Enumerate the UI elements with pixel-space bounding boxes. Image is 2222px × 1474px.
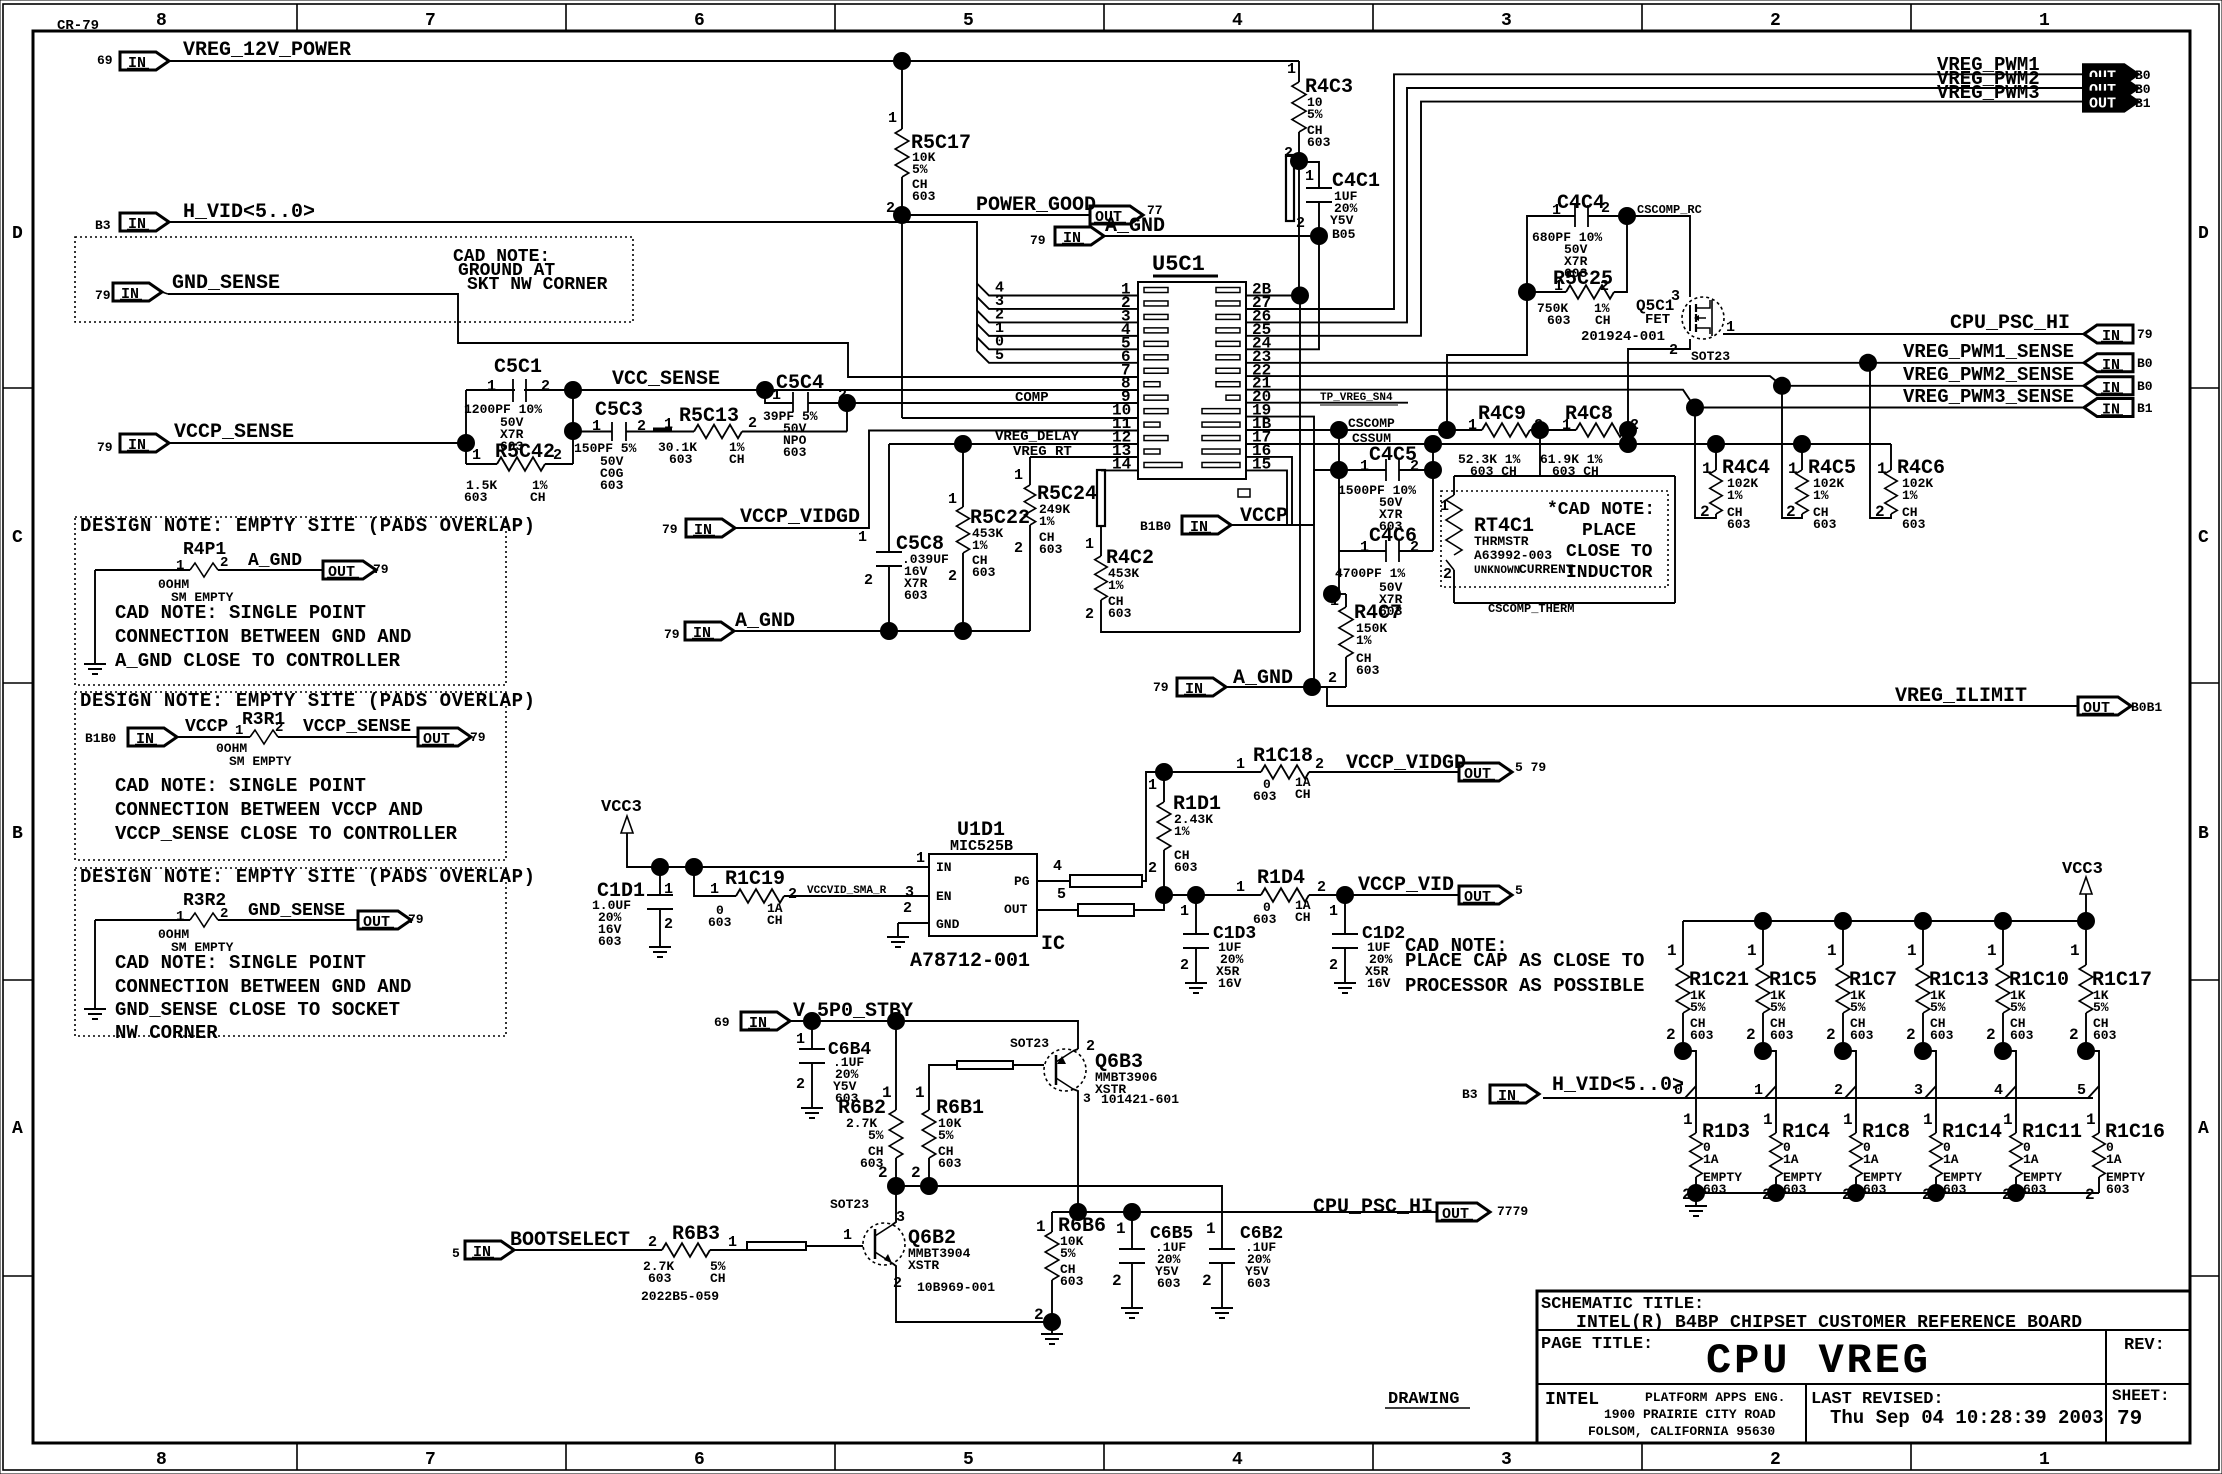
junction dot PWM1 sense	[1859, 354, 1877, 372]
ground C1D1	[649, 946, 671, 948]
net H_VID IN flag	[120, 213, 169, 231]
svg-text:1: 1	[487, 378, 496, 395]
svg-text:5: 5	[963, 11, 974, 31]
wire CPU_PSC_HI bottom row	[1052, 1211, 1437, 1213]
svg-text:CH: CH	[710, 1271, 726, 1286]
junction dot C1D3	[1187, 886, 1205, 904]
ground C1D3	[1185, 982, 1207, 984]
junction dot R1C10 bottom	[1994, 1042, 2012, 1060]
svg-text:1: 1	[1236, 879, 1245, 896]
svg-text:1: 1	[1305, 168, 1314, 185]
svg-text:7: 7	[425, 1450, 436, 1470]
wire C5C1 left leg	[465, 390, 467, 464]
svg-text:R1C11: R1C11	[2022, 1121, 2082, 1144]
wire A_GND mid	[734, 630, 1030, 632]
ic U5C1 no-connect stub	[1238, 489, 1250, 497]
svg-text:H_VID<5..0>: H_VID<5..0>	[183, 201, 315, 224]
resistor R4C5	[1801, 444, 1803, 470]
resistor R4C3	[1298, 61, 1300, 82]
svg-text:7779: 7779	[1497, 1204, 1528, 1219]
svg-text:2: 2	[1317, 879, 1326, 896]
svg-text:603: 603	[1253, 912, 1277, 927]
svg-text:C5C1: C5C1	[494, 356, 542, 379]
resistor R6B2	[895, 1021, 897, 1110]
resistor R4C6	[1890, 444, 1892, 470]
svg-text:1: 1	[1907, 942, 1917, 960]
base bar Q6B3	[957, 1061, 1013, 1069]
svg-text:C4C4: C4C4	[1557, 192, 1605, 215]
svg-text:CPU VREG: CPU VREG	[1706, 1337, 1928, 1385]
svg-text:1: 1	[843, 1227, 852, 1244]
wire C4C5 left leg down	[1338, 470, 1340, 551]
svg-text:0: 0	[1674, 1082, 1683, 1099]
ground U1D1	[887, 936, 909, 938]
svg-text:B0: B0	[2135, 82, 2151, 97]
junction dot C4C5 right	[1424, 461, 1442, 479]
resistor R1C4	[1770, 1133, 1782, 1177]
svg-text:79: 79	[2117, 1408, 2142, 1431]
svg-text:IN: IN	[2102, 402, 2120, 419]
bus tap 1	[1763, 1051, 1776, 1133]
svg-text:1: 1	[1287, 61, 1296, 78]
svg-text:2: 2	[1328, 670, 1337, 687]
wire R4C3 dot to pin28 dot	[1298, 161, 1300, 296]
resistor R1C17	[2085, 921, 2087, 965]
svg-text:603: 603	[972, 565, 996, 580]
svg-text:CONNECTION BETWEEN GND AND: CONNECTION BETWEEN GND AND	[115, 976, 411, 998]
junction dot PWM2 sense	[1773, 377, 1791, 395]
svg-text:2: 2	[1770, 11, 1781, 31]
wire VCCP_VIDGD to pin11	[735, 431, 1138, 529]
wire V_5P0_STBY	[790, 1021, 1078, 1049]
svg-text:603: 603	[1783, 1182, 1807, 1197]
svg-text:2: 2	[1875, 503, 1885, 521]
junction dot VCC_SENSE left	[564, 381, 582, 399]
svg-text:1: 1	[1702, 460, 1712, 478]
resistor R1C10	[2002, 921, 2004, 965]
svg-text:PROCESSOR AS POSSIBLE: PROCESSOR AS POSSIBLE	[1405, 975, 1644, 997]
svg-text:VCC3: VCC3	[2062, 860, 2103, 879]
svg-text:PLACE: PLACE	[1582, 521, 1636, 541]
svg-text:VREG_PWM2_SENSE: VREG_PWM2_SENSE	[1903, 364, 2074, 386]
net VREG_PWM1_SENSE IN flag	[2084, 354, 2133, 372]
svg-text:OUT: OUT	[2089, 96, 2116, 113]
svg-text:603: 603	[708, 915, 732, 930]
svg-text:2: 2	[788, 886, 797, 903]
svg-text:1A: 1A	[2023, 1152, 2039, 1167]
svg-text:1%: 1%	[1108, 578, 1124, 593]
svg-text:1: 1	[1329, 903, 1338, 920]
junction dot R1C11 bottom	[2007, 1184, 2025, 1202]
resistor R5C25	[1527, 291, 1566, 293]
resistor R6B3	[662, 1243, 710, 1257]
svg-text:INTEL(R) B4BP CHIPSET CUSTOMER: INTEL(R) B4BP CHIPSET CUSTOMER REFERENCE…	[1576, 1313, 2082, 1333]
svg-text:A_GND: A_GND	[1105, 215, 1165, 238]
svg-text:OUT: OUT	[1442, 1206, 1469, 1223]
resistor R5C22	[962, 444, 964, 507]
net VREG_PWM2 OUT flag	[2084, 79, 2137, 97]
svg-text:5: 5	[1515, 883, 1523, 898]
border right band dividers	[2190, 387, 2219, 389]
svg-text:3: 3	[896, 1209, 905, 1226]
svg-text:603: 603	[1174, 860, 1198, 875]
svg-text:2: 2	[1601, 200, 1610, 217]
resistor R6B6	[1051, 1212, 1053, 1232]
svg-text:VCCP_SENSE CLOSE TO CONTROLLER: VCCP_SENSE CLOSE TO CONTROLLER	[115, 823, 458, 845]
svg-text:1: 1	[472, 447, 481, 464]
svg-text:VCCP_SENSE: VCCP_SENSE	[303, 717, 411, 737]
svg-text:79: 79	[664, 627, 680, 642]
title block divider line 2	[1537, 1383, 2190, 1385]
resistor R1C7	[1842, 921, 1844, 965]
net A_GND top IN flag	[1055, 227, 1104, 245]
svg-text:603: 603	[648, 1271, 672, 1286]
svg-text:IN: IN	[1063, 230, 1081, 247]
transistor Q6B3	[1044, 1049, 1086, 1091]
wire H_VID bus to ripper	[169, 222, 977, 351]
svg-text:603: 603	[938, 1156, 962, 1171]
svg-text:1: 1	[1148, 777, 1157, 794]
resistor R1C21	[1682, 921, 1684, 965]
svg-text:1: 1	[176, 909, 184, 925]
svg-text:VREG_12V_POWER: VREG_12V_POWER	[183, 39, 351, 62]
testpoint bar pin14	[1097, 470, 1105, 526]
net VCCP_VID OUT flag	[1459, 886, 1512, 904]
svg-text:16V: 16V	[1367, 976, 1391, 991]
svg-text:PG: PG	[1014, 874, 1030, 889]
junction dot CSCOMP R4C9	[1438, 421, 1456, 439]
junction dot pin28 A_GND	[1291, 287, 1309, 305]
capacitor C5C1	[513, 379, 526, 402]
svg-text:OUT: OUT	[1004, 902, 1028, 917]
svg-text:2: 2	[1746, 1026, 1756, 1044]
svg-text:OUT: OUT	[2083, 700, 2110, 717]
svg-text:B05: B05	[1332, 227, 1356, 242]
svg-text:1: 1	[664, 881, 673, 898]
resistor R4C7	[1332, 593, 1346, 595]
net VCCP_SENSE OUT flag box2	[418, 728, 471, 746]
svg-text:7: 7	[425, 11, 436, 31]
svg-text:603: 603	[1703, 1182, 1727, 1197]
svg-text:1: 1	[948, 491, 957, 508]
svg-text:2: 2	[1296, 215, 1305, 232]
junction dot VCC3 rail R1C7	[1834, 912, 1852, 930]
junction dot POWER_GOOD	[893, 206, 911, 224]
wire PG to R1C18 row	[1142, 772, 1164, 881]
bus ripper taps to pins 1-6	[977, 284, 1138, 296]
wire pin28 stub	[1246, 295, 1300, 297]
ground C1D2	[1334, 982, 1356, 984]
wire VCCP	[1231, 524, 1314, 526]
resistor R6B1	[929, 1065, 957, 1110]
svg-text:1: 1	[2070, 942, 2080, 960]
svg-text:NW CORNER: NW CORNER	[115, 1022, 218, 1044]
resistor R1D1	[1163, 772, 1165, 802]
border left band dividers	[3, 387, 33, 389]
svg-text:Y5V: Y5V	[1330, 213, 1354, 228]
svg-text:1: 1	[664, 416, 673, 433]
svg-text:5%: 5%	[1850, 1000, 1866, 1015]
bus tap 2	[1843, 1051, 1856, 1133]
svg-text:1%: 1%	[1727, 488, 1743, 503]
junction dot CSSUM C4C5	[1424, 435, 1442, 453]
bus tap 0	[1683, 1051, 1696, 1133]
wire VREG_RT row pin13	[1030, 456, 1138, 458]
ic U1D1 body	[929, 854, 1037, 936]
svg-text:5%: 5%	[938, 1128, 954, 1143]
svg-text:603: 603	[2023, 1182, 2047, 1197]
wire VCC3 rail	[2085, 909, 2087, 921]
svg-text:1: 1	[1360, 458, 1369, 475]
svg-text:4: 4	[1232, 11, 1243, 31]
svg-text:VCCP_VID: VCCP_VID	[1358, 874, 1454, 897]
svg-text:CONNECTION BETWEEN VCCP AND: CONNECTION BETWEEN VCCP AND	[115, 799, 423, 821]
svg-text:R1D4: R1D4	[1257, 867, 1305, 890]
wire C4C6 down to R4C7	[1338, 551, 1340, 594]
svg-text:CLOSE TO: CLOSE TO	[1566, 542, 1653, 562]
svg-text:OUT: OUT	[423, 731, 450, 748]
svg-text:B1B0: B1B0	[85, 731, 116, 746]
svg-text:C5C4: C5C4	[776, 372, 824, 395]
svg-text:INDUCTOR: INDUCTOR	[1566, 563, 1653, 583]
wire C5C3 vertical	[572, 390, 574, 464]
capacitor C1D1	[659, 867, 661, 895]
junction dot A_GND C5C8	[880, 622, 898, 640]
transistor Q6B2	[863, 1223, 905, 1265]
svg-text:2: 2	[796, 1076, 805, 1093]
svg-text:2: 2	[911, 1164, 921, 1182]
svg-text:1: 1	[1923, 1111, 1933, 1129]
wire A_GND net vertical x1300	[1299, 296, 1301, 633]
wire CPU_PSC_HI from FET	[1723, 333, 2084, 335]
wire VREG_12V_POWER	[169, 60, 1299, 62]
svg-text:603: 603	[2093, 1028, 2117, 1043]
svg-text:OUT: OUT	[363, 914, 390, 931]
svg-text:IN: IN	[1498, 1088, 1516, 1105]
junction dot CSCOMP mid	[1531, 421, 1549, 439]
svg-text:2: 2	[1034, 1306, 1044, 1324]
svg-text:2: 2	[664, 916, 673, 933]
svg-text:MIC525B: MIC525B	[950, 838, 1013, 855]
junction dot R5C25 left	[1518, 283, 1536, 301]
junction dot 12V at R5C17	[893, 52, 911, 70]
svg-text:B: B	[12, 824, 23, 844]
svg-text:2: 2	[637, 418, 646, 435]
svg-text:A78712-001: A78712-001	[910, 950, 1030, 973]
wire VREG_PWM1	[1246, 74, 2084, 309]
wire Q6B3 emitter up	[1073, 1049, 1078, 1051]
svg-text:2: 2	[1148, 860, 1157, 877]
svg-text:5%: 5%	[2010, 1000, 2026, 1015]
svg-text:R1C19: R1C19	[725, 868, 785, 891]
svg-text:OUT: OUT	[328, 564, 355, 581]
bus tap 4	[2003, 1051, 2016, 1133]
svg-text:SOT23: SOT23	[1691, 349, 1730, 364]
junction dot R6B2 bottom	[887, 1177, 905, 1195]
wire box3 ground leg	[94, 920, 96, 1009]
svg-text:B0: B0	[2135, 68, 2151, 83]
svg-text:1: 1	[796, 1031, 805, 1048]
svg-text:R1C18: R1C18	[1253, 745, 1313, 768]
svg-text:1: 1	[1036, 1218, 1046, 1236]
wire R5C25 left to CSCOMP	[1447, 292, 1527, 430]
svg-text:1: 1	[858, 529, 867, 546]
wire bottom rail	[1696, 1192, 2099, 1194]
svg-text:PLACE CAP AS CLOSE TO: PLACE CAP AS CLOSE TO	[1405, 950, 1644, 972]
svg-text:16V: 16V	[1218, 976, 1242, 991]
net VCCP_VIDGD OUT flag	[1459, 763, 1512, 781]
svg-text:5 79: 5 79	[1515, 760, 1546, 775]
title block LAST REVISED divider	[1805, 1384, 1807, 1443]
svg-text:CSCOMP_RC: CSCOMP_RC	[1637, 203, 1702, 217]
wire GND_SENSE to pin7	[162, 292, 168, 294]
svg-text:69: 69	[97, 53, 113, 68]
svg-text:B3: B3	[95, 218, 111, 233]
svg-text:6: 6	[694, 11, 705, 31]
wire CSCOMP to C4C5	[1338, 430, 1340, 470]
svg-text:2: 2	[1834, 1082, 1843, 1099]
junction dot VCC_SENSE right	[756, 381, 774, 399]
svg-text:4: 4	[1053, 858, 1062, 875]
svg-text:A63992-003: A63992-003	[1474, 548, 1552, 563]
title block REV divider	[2105, 1330, 2107, 1443]
resistor R5C13	[694, 425, 742, 439]
svg-text:B1B0: B1B0	[1140, 519, 1171, 534]
junction dot PWM3 sense	[1686, 399, 1704, 417]
svg-text:IN: IN	[128, 216, 146, 233]
svg-text:EN: EN	[936, 889, 952, 904]
svg-text:79: 79	[662, 522, 678, 537]
svg-text:H_VID<5..0>: H_VID<5..0>	[1552, 1074, 1684, 1097]
svg-text:603: 603	[1850, 1028, 1874, 1043]
svg-text:DRAWING: DRAWING	[1388, 1390, 1459, 1409]
svg-text:SCHEMATIC TITLE:: SCHEMATIC TITLE:	[1541, 1295, 1704, 1314]
svg-text:IN: IN	[136, 731, 154, 748]
junction dot A_GND C4C1	[1310, 227, 1328, 245]
svg-text:IN: IN	[749, 1015, 767, 1032]
svg-text:2: 2	[1700, 503, 1710, 521]
svg-text:B: B	[2198, 824, 2209, 844]
svg-text:A_GND: A_GND	[735, 610, 795, 633]
svg-text:1A: 1A	[2106, 1152, 2122, 1167]
svg-text:1%: 1%	[1039, 514, 1055, 529]
ground C6B4	[801, 1107, 823, 1109]
wire pin10 from R5C17	[902, 417, 1138, 419]
wire Q6B3 collector down	[1073, 1089, 1078, 1212]
wire RT4C1 tap	[1539, 430, 1541, 476]
svg-text:2: 2	[1315, 756, 1324, 773]
svg-text:1: 1	[592, 418, 601, 435]
svg-text:C5C3: C5C3	[595, 399, 643, 422]
svg-text:8: 8	[156, 1450, 167, 1470]
svg-text:1: 1	[1987, 942, 1997, 960]
svg-text:603: 603	[600, 478, 624, 493]
junction dot VCCP_VID left	[1155, 886, 1173, 904]
design note box 3	[75, 868, 506, 1036]
svg-text:C: C	[2198, 528, 2209, 548]
ground box3	[84, 1008, 106, 1010]
capacitor C1D3	[1195, 895, 1197, 934]
svg-text:5%: 5%	[912, 162, 928, 177]
svg-text:3: 3	[1501, 1450, 1512, 1470]
svg-text:603: 603	[1770, 1028, 1794, 1043]
ic U5C1 body	[1138, 282, 1246, 479]
svg-text:CR-79: CR-79	[57, 18, 99, 34]
svg-text:603: 603	[1902, 517, 1926, 532]
svg-text:5: 5	[2077, 1082, 2086, 1099]
svg-text:2: 2	[1180, 957, 1189, 974]
svg-text:5: 5	[995, 347, 1004, 364]
svg-text:1: 1	[772, 387, 781, 404]
svg-text:VCCP_VIDGD: VCCP_VIDGD	[740, 506, 860, 529]
wire RT4C1 loop top	[1454, 475, 1675, 477]
net VCCP_SENSE IN flag	[120, 434, 169, 452]
resistor R5C42	[466, 463, 497, 465]
svg-text:SOT23: SOT23	[1010, 1036, 1049, 1051]
svg-text:2: 2	[1443, 566, 1452, 583]
svg-text:R6B3: R6B3	[672, 1223, 720, 1246]
svg-text:IN: IN	[2102, 380, 2120, 397]
svg-text:2: 2	[553, 447, 562, 464]
svg-text:R5C13: R5C13	[679, 405, 739, 428]
wire VCC_SENSE row pin8	[466, 389, 1138, 391]
svg-text:2: 2	[864, 572, 873, 589]
svg-text:79: 79	[1153, 680, 1169, 695]
svg-text:101421-601: 101421-601	[1101, 1092, 1179, 1107]
svg-text:2: 2	[1786, 503, 1796, 521]
wire A_GND down to pin24	[1246, 236, 1319, 349]
wire VCCP_SENSE	[169, 442, 466, 444]
svg-text:1: 1	[1116, 1220, 1126, 1238]
net POWER_GOOD OUT flag	[1090, 206, 1143, 224]
svg-text:1: 1	[916, 850, 925, 867]
svg-text:2: 2	[948, 568, 957, 585]
svg-text:CH: CH	[729, 452, 745, 467]
svg-text:R4C9: R4C9	[1478, 403, 1526, 426]
junction dot VCCP_VID right	[1336, 886, 1354, 904]
svg-text:A: A	[12, 1119, 23, 1139]
svg-text:603: 603	[1547, 313, 1571, 328]
svg-text:3: 3	[1914, 1082, 1923, 1099]
svg-text:THRMSTR: THRMSTR	[1474, 534, 1529, 549]
net A_GND mid IN flag	[685, 622, 734, 640]
junction dot R1D3 bottom	[1687, 1184, 1705, 1202]
junction dot R4C7 top	[1323, 585, 1341, 603]
wire CSSUM row pin17	[1246, 443, 1891, 445]
svg-text:1: 1	[2039, 11, 2050, 31]
ground C6B5	[1121, 1307, 1143, 1309]
svg-text:79: 79	[2137, 327, 2153, 342]
capacitor C5C4	[765, 390, 793, 403]
svg-text:B0B1: B0B1	[2131, 700, 2162, 715]
svg-text:2: 2	[878, 1164, 888, 1182]
svg-text:5%: 5%	[1690, 1000, 1706, 1015]
svg-text:1A: 1A	[1863, 1152, 1879, 1167]
svg-text:201924-001: 201924-001	[1581, 329, 1665, 345]
svg-text:1%: 1%	[1356, 633, 1372, 648]
bus tap 5	[2086, 1051, 2099, 1133]
junction dot VCC3 rail R1C13	[1914, 912, 1932, 930]
svg-text:VCC3: VCC3	[601, 798, 642, 817]
svg-text:1: 1	[1562, 417, 1571, 434]
svg-text:603: 603	[1307, 135, 1331, 150]
resistor R1C18	[1164, 771, 1261, 773]
svg-text:1: 1	[1014, 467, 1023, 484]
svg-text:U5C1: U5C1	[1152, 252, 1205, 277]
svg-text:3: 3	[1501, 11, 1512, 31]
svg-text:SKT NW CORNER: SKT NW CORNER	[467, 275, 608, 295]
resistor R1C13	[1922, 921, 1924, 965]
